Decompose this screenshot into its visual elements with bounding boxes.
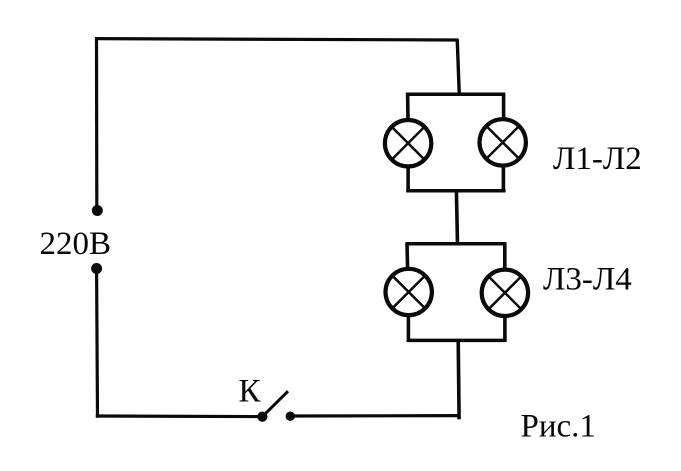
lamp Л4 (482, 270, 528, 316)
wire: bottom horizontal right segment from switch to right vertical (295, 414, 460, 418)
svg-text:Рис.1: Рис.1 (521, 409, 596, 445)
switch K: right contact dot (286, 412, 295, 421)
wire: left vertical from lower terminal to bottom wire (95, 273, 99, 418)
lamp Л2 (480, 119, 526, 165)
wire: lamp group 1 right vertical lower stub (502, 165, 506, 192)
node: lower source terminal dot (91, 263, 102, 274)
lamp Л1 (385, 120, 431, 166)
wire: lamp group 1 top horizontal (406, 92, 505, 96)
wire: right vertical from top wire down to lamp group 1 (457, 39, 459, 95)
wire: lamp group 1 bottom horizontal (406, 189, 505, 193)
svg-text:Л1-Л2: Л1-Л2 (553, 141, 642, 177)
lamp Л3 (386, 269, 432, 315)
switch K: lever arm (262, 391, 288, 416)
wire: lamp group 2 bottom horizontal (407, 339, 506, 343)
wire: lamp group 2 left vertical lower stub (407, 315, 411, 342)
wire: lamp group 2 right vertical upper stub (503, 242, 507, 270)
node: upper source terminal dot (92, 205, 103, 216)
wire: left vertical from top-left corner down to upper source terminal (95, 37, 99, 206)
wire: top horizontal (95, 39, 458, 40)
wire: lamp group 1 right vertical upper stub (502, 93, 506, 120)
wire: bottom horizontal left segment to switch (96, 414, 262, 418)
svg-text:220В: 220В (40, 226, 112, 262)
wire: middle vertical connector between lamp groups (456, 191, 457, 245)
wire: right vertical from lamp group 2 down past bottom wire (456, 339, 460, 419)
svg-text:Л3-Л4: Л3-Л4 (543, 261, 632, 297)
wire: lamp group 1 left vertical upper stub (406, 93, 410, 120)
wire: lamp group 2 left vertical upper stub (405, 242, 409, 269)
wire: lamp group 1 left vertical lower stub (406, 166, 410, 192)
switch K: left contact dot (257, 412, 267, 422)
wire: lamp group 2 top horizontal (406, 242, 506, 246)
wire: lamp group 2 right vertical lower stub (503, 315, 507, 342)
svg-text:К: К (239, 373, 262, 409)
